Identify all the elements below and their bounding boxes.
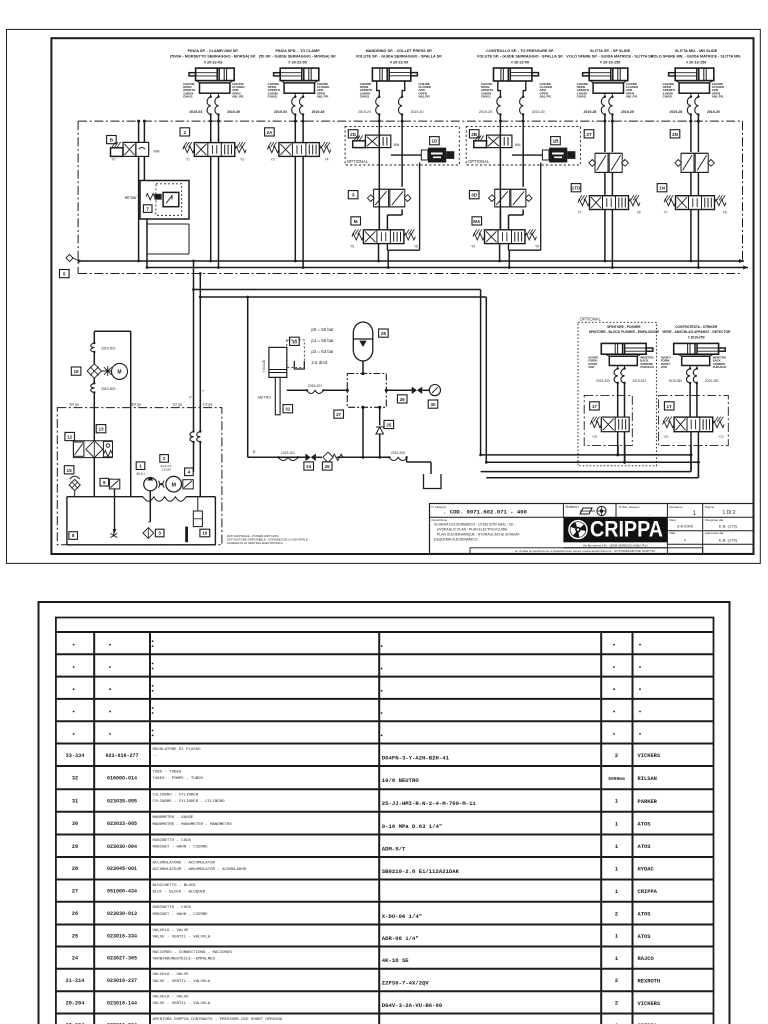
svg-text:1,9 kW: 1,9 kW [161,467,171,471]
svg-text:MA: MA [473,219,481,224]
label box 8 [69,532,78,540]
svg-text:WN: WN [394,143,400,147]
svg-text:023030-004: 023030-004 [107,844,137,850]
relief valve 26b [323,452,343,462]
manifold block 27 [346,372,388,409]
svg-text:M: M [354,219,358,224]
side labels G6 [663,82,725,99]
svg-text:ROBINET - HAHN - CIERRE: ROBINET - HAHN - CIERRE [153,846,209,850]
svg-text:E.B. (173): E.B. (173) [719,537,738,542]
svg-text:# 20-22-00: # 20-22-00 [511,61,529,65]
label box 31 [283,405,293,413]
svg-text:ATOS: ATOS [638,822,652,828]
power unit data note [227,534,310,545]
pump P1 [144,477,157,523]
svg-text:50.5 l: 50.5 l [136,472,144,476]
throttle check pair G4 [489,189,533,207]
wire G8 drops [691,432,698,478]
side labels G2 [268,82,330,99]
label box 7 relief [143,205,152,213]
svg-text:ZURUECK: ZURUECK [713,365,727,369]
cylinder G5 [583,68,628,97]
label box 1D G3 [430,137,440,145]
svg-text:PINZA SPD. - TO CLAMP: PINZA SPD. - TO CLAMP [275,49,320,53]
title block [430,504,754,554]
svg-text:VOLO SFERE MN. - GUIDA MATRICE: VOLO SFERE MN. - GUIDA MATRICE - SLITTA … [651,55,741,59]
svg-text:26: 26 [400,397,406,402]
cylinder G3 [372,68,417,97]
suction strainer [143,522,154,538]
svg-text:VOLO SFERE SP. - GUIDA MATRICE: VOLO SFERE SP. - GUIDA MATRICE - SLITTA … [566,55,654,59]
svg-text:DG4V-3-2A-VU-B6-60: DG4V-3-2A-VU-B6-60 [382,1002,443,1009]
svg-text:2019-28: 2019-28 [670,110,683,114]
svg-text:ABL.PR.: ABL.PR. [232,95,244,99]
relief block lower pipe box [146,219,189,269]
throttle check pair G5 [589,143,629,173]
svg-text:ESQUEMA OLEODINAMICO: ESQUEMA OLEODINAMICO [434,538,478,542]
pilot check black G3 [421,148,454,163]
pressure settings note [311,327,334,365]
svg-text:OPTIONAL: OPTIONAL [580,317,602,322]
wire G3 mid links [379,209,402,229]
svg-text:2N: 2N [672,132,679,137]
svg-text:REGOLATORE DI FLUSSO: REGOLATORE DI FLUSSO [153,748,202,752]
svg-text:ATOS: ATOS [638,844,652,850]
svg-text:PLAN OLEODINAMIQUE - HYDRAULIS: PLAN OLEODINAMIQUE - HYDRAULISCHE SCHEMA [437,533,520,537]
hose 2019-201 b [277,451,299,461]
label box 30 gauge [428,400,438,408]
svg-text:2019-29: 2019-29 [621,110,634,114]
cylinder G4 header labels [477,49,564,64]
svg-text:2019-49: 2019-49 [312,110,325,114]
svg-text:1/2 ga: 1/2 ga [203,402,213,406]
table dotted placeholder rows [73,640,641,736]
svg-text:2019-300: 2019-300 [101,387,115,391]
label box M G4 [472,217,482,225]
optional dashed box G4 [466,127,580,165]
label box 28 [379,329,389,337]
optional dashed box G3 [345,127,459,165]
hose cooler top [91,343,95,352]
svg-text:ABL.PR.: ABL.PR. [626,95,638,99]
svg-text:E' vietata la riproduzione a q: E' vietata la riproduzione a qualsiasi t… [515,549,656,553]
svg-text:BLOCCHETTO - BLOCK: BLOCCHETTO - BLOCK [153,884,197,888]
svg-text:Y7: Y7 [578,211,582,215]
svg-text:CYLINDRE - ZYLINDER - CILINDRO: CYLINDRE - ZYLINDER - CILINDRO [153,800,226,804]
svg-text:1TD: 1TD [572,186,581,191]
label box 5 [60,270,70,278]
wire pump riser P [193,261,195,408]
svg-text:1N: 1N [659,186,666,191]
svg-text:2: 2 [184,130,187,135]
svg-text:2019-20: 2019-20 [358,110,371,114]
CRIPPA logo [563,517,667,548]
wire accumulator feed [247,297,249,457]
svg-text:Sistema I: Sistema I [565,505,578,509]
svg-text:SCHEMA OLEODINAMICO - 14 520 5: SCHEMA OLEODINAMICO - 14 520 575V 60Hz -… [434,523,515,527]
label box 26b [322,462,332,470]
svg-text:p2 = 63 bar: p2 = 63 bar [311,349,334,354]
svg-text:023027-365: 023027-365 [107,956,137,962]
wire G1 P drop [210,156,212,261]
valve V1 G1 4/3 DCV [183,138,247,162]
svg-text:# 20-22-00: # 20-22-00 [390,61,408,65]
svg-text:VERIF - ANSCHLAG APPARAT - DET: VERIF - ANSCHLAG APPARAT - DETECTOR [662,330,731,334]
svg-text:023016-144: 023016-144 [107,1000,137,1006]
label box 1TD G5 [571,184,581,192]
pressure switch cylinder [258,347,287,414]
cylinder G6 header labels [651,49,741,64]
svg-text:3/4 ga: 3/4 ga [131,402,141,406]
wire G6 P drop [690,210,692,261]
label box 10 [200,529,210,537]
cylinder G2 header labels [259,49,336,64]
wire G5 T drop [611,210,613,268]
svg-text:Y20: Y20 [592,435,598,439]
limit switch dashed [287,340,305,369]
hose loops G5 [584,96,634,116]
svg-text:10/8 NEUTRO: 10/8 NEUTRO [382,777,420,784]
svg-text:2B: 2B [471,132,478,137]
svg-text:Y5: Y5 [350,245,354,249]
wire branch B1 [481,471,691,473]
wire valve B T to relief [143,156,145,180]
label box 1N G6 [657,184,667,192]
svg-text:Y1: Y1 [186,157,190,161]
svg-text:5: 5 [63,272,66,277]
svg-text:E.B. (173): E.B. (173) [719,524,738,529]
svg-text:VOLUTE SP. - GUIDE SERRAGGIO -: VOLUTE SP. - GUIDE SERRAGGIO - SPALLA SP… [477,55,564,59]
svg-text:A: A [210,138,212,142]
label box 9 [100,478,109,486]
wire optional link G4 [512,154,543,156]
label box 4 [185,468,194,476]
label box 16 [71,367,81,375]
svg-text:# 20-22-03: # 20-22-03 [204,61,222,65]
svg-text:WN: WN [154,150,160,154]
svg-text:SPINTORE - PUSHER: SPINTORE - PUSHER [607,325,641,329]
svg-text:4: 4 [188,470,191,475]
svg-text:1: 1 [615,934,618,940]
svg-text:MANOMETRE - MANOMETER - MANOME: MANOMETRE - MANOMETER - MANOMETRO [153,823,233,827]
svg-text:PINZA SP. - CLAMP/JAW SP.: PINZA SP. - CLAMP/JAW SP. [188,49,239,53]
wire branch A2 [486,461,698,463]
svg-text:CHIUS.: CHIUS. [360,95,370,99]
label box 2D G3 [348,130,358,138]
label box 1B G4 [551,137,561,145]
svg-text:60 bar: 60 bar [125,195,137,200]
svg-text:VALVE - VENTIL - VALVULA: VALVE - VENTIL - VALVULA [153,980,211,984]
hose 2019-201 a [306,384,325,394]
copyright strip [470,548,703,554]
svg-text:CHIUS.: CHIUS. [577,95,587,99]
svg-text:2019-03: 2019-03 [189,110,202,114]
svg-text:CHIUS.: CHIUS. [268,95,278,99]
svg-text:BLOC - BLOCK - BLOQUED: BLOC - BLOCK - BLOQUED [153,891,206,895]
valve B 4/2 DCV [111,120,160,162]
cylinder G7 [601,343,653,368]
wire riser T inside box [199,408,201,432]
wire G2 lines to valve [294,115,305,143]
svg-text:31: 31 [72,799,78,805]
shutoff valve gauge [412,387,423,394]
svg-text:SLITTA MN. - MN SLIDE: SLITTA MN. - MN SLIDE [675,49,718,53]
label box 2T G5 [584,130,594,138]
svg-text:2019-206: 2019-206 [391,451,405,455]
label box 3 G4 [469,191,479,199]
svg-text:16: 16 [74,369,80,374]
svg-text:ABL.PR.: ABL.PR. [418,95,430,99]
cylinder G2 [274,68,319,97]
svg-text:1B: 1B [553,139,560,144]
svg-text:2019-49: 2019-49 [227,110,240,114]
svg-text:WN: WN [515,143,521,147]
svg-text:1: 1 [615,889,618,895]
svg-text:051000-434: 051000-434 [107,889,137,895]
header labels G7 [589,325,660,334]
svg-text:1: 1 [615,844,618,850]
svg-text:2019-201: 2019-201 [281,451,295,455]
svg-text:SPINTORE - BLOCK PUSHER - EMPU: SPINTORE - BLOCK PUSHER - EMPUJADOR [589,330,660,334]
wire G2 T drop [302,156,304,267]
wire riser P inside box [193,408,195,432]
svg-text:VOR: VOR [588,365,594,369]
label box 2 pump [160,455,169,463]
svg-text:Pagina: Pagina [705,505,715,509]
svg-text:2T: 2T [586,132,592,137]
svg-text:TUBES - POMPE - TUBOS: TUBES - POMPE - TUBOS [153,777,204,781]
label box 1 [136,462,145,470]
wire G4 A/B lines [499,115,525,230]
svg-text:ACCUMULATORE - ACCUMULATOR: ACCUMULATORE - ACCUMULATOR [153,861,216,865]
svg-text:Y2: Y2 [240,157,244,161]
svg-text:27: 27 [72,889,78,895]
wire gauge line [287,389,429,391]
cylinder G4 [494,68,539,97]
svg-text:2019-20: 2019-20 [532,110,545,114]
wire pump return rail [200,296,486,298]
svg-text:--: -- [153,755,158,759]
svg-text:HYDAC: HYDAC [638,867,655,873]
side labels G4 [481,82,553,99]
svg-text:Y5: Y5 [471,245,475,249]
svg-text:Y22: Y22 [718,435,724,439]
svg-text:2: 2 [615,1001,618,1007]
valve G7 [590,383,629,439]
svg-text:2A: 2A [266,130,273,135]
svg-text:28: 28 [72,866,78,872]
svg-text:OPTIONAL: OPTIONAL [468,159,490,164]
label box 3 G3 [348,191,358,199]
side labels G8 [661,356,727,370]
check valve 25 [376,407,384,457]
side labels G7 [588,356,654,370]
svg-text:Y6: Y6 [535,245,539,249]
svg-text:CRIPPA: CRIPPA [590,517,663,542]
wire pump riser T [199,274,201,408]
svg-text:VICKERS: VICKERS [638,753,661,759]
svg-text:2D: 2D [350,132,357,137]
svg-text:023033-005: 023033-005 [107,821,137,827]
hose pump T riser [197,432,201,442]
parts table [56,618,714,1024]
port size labels [69,390,212,407]
wire P bus [79,260,744,262]
tank T1 [67,497,216,545]
svg-text:Y8: Y8 [723,211,727,215]
svg-text:31: 31 [285,407,291,412]
svg-text:17: 17 [592,404,598,409]
svg-text:Data: Data [669,518,676,522]
svg-text:10: 10 [202,531,208,536]
svg-text:2019-201: 2019-201 [308,384,322,388]
svg-text:Via Buonarroti 143 - 20038 SER: Via Buonarroti 143 - 20038 SEREGNO (MB) … [583,543,648,547]
tank symbol TS1 [424,474,442,489]
svg-text:ABL.PR.: ABL.PR. [540,95,552,99]
wire G6 lines to valve [689,115,700,143]
svg-text:p1 = 55 bar: p1 = 55 bar [311,338,334,343]
svg-text:Matr.: Matr. [669,531,676,535]
svg-text:PARKER: PARKER [638,799,658,805]
label box 2 G1 [180,128,190,136]
sheet1 outer border [7,29,761,563]
svg-text:DG4FN-3-Y-A2H-B2H-41: DG4FN-3-Y-A2H-B2H-41 [382,754,450,761]
sheet2 outer border [39,602,730,1024]
air cooler AC1 [87,363,127,379]
cylinder G1 [189,68,234,97]
cylinder G8 [674,343,725,368]
svg-text:2019-29: 2019-29 [707,110,720,114]
svg-text:X-DO-06 1/4": X-DO-06 1/4" [382,913,422,920]
svg-text:Y4: Y4 [325,157,329,161]
wire G1 T drop [218,156,220,267]
label box 2B G4 [469,130,479,138]
svg-text:023035-055: 023035-055 [107,799,137,805]
svg-text:1/2 ga: 1/2 ga [172,402,182,406]
svg-text:2019-20: 2019-20 [411,110,424,114]
coupling [158,481,164,488]
hose loops G2 [274,96,325,116]
svg-text:3: 3 [158,531,161,536]
wire G3 P drop [378,244,380,261]
air breather F2 [69,476,80,496]
svg-text:30: 30 [430,402,436,407]
label box 30 switch [290,337,300,345]
svg-text:RAJCO: RAJCO [638,956,655,962]
wire pilot drop G3 [419,163,421,251]
pressure gauge PG1 [429,385,441,396]
wire pilot drop G4 [540,163,542,251]
svg-text:ADR-06 1/4": ADR-06 1/4" [382,935,419,942]
svg-text:Z2FS6-7-4X/2QV: Z2FS6-7-4X/2QV [382,980,430,987]
hose loops G4 [479,96,545,116]
label box 12 [65,432,75,440]
svg-text:28: 28 [381,331,387,336]
wire G3 A/B lines [378,115,404,230]
svg-text:2019-250: 2019-250 [669,379,683,383]
svg-text:REXROTH: REXROTH [638,978,661,984]
svg-text:ABL.PR.: ABL.PR. [712,95,724,99]
svg-text:ADM-5/T: ADM-5/T [382,845,406,852]
valve optional G4 [474,135,521,148]
svg-text:OPTIONAL: OPTIONAL [347,159,369,164]
svg-text:HYDRAULIC PLAN - PLAN ELECTRO-: HYDRAULIC PLAN - PLAN ELECTRO-FLUIDE [437,528,508,532]
wire G2 P drop [294,156,296,261]
wire G5 lines to valve [603,115,614,143]
svg-text:023016-334: 023016-334 [107,934,137,940]
svg-text:CILINDRO - CYLINDER: CILINDRO - CYLINDER [153,794,199,798]
svg-text:Y6: Y6 [414,245,418,249]
side labels G5 [577,82,639,99]
valve G8 [663,383,725,439]
svg-text:< 014-00: < 014-00 [262,359,266,372]
svg-text:RUBINETTO - COCK: RUBINETTO - COCK [153,906,192,910]
svg-text:26: 26 [72,911,78,917]
wire cooler loop [94,331,130,496]
svg-text:016000-014: 016000-014 [107,776,137,782]
svg-text:Y8: Y8 [637,211,641,215]
svg-text:30: 30 [72,821,78,827]
pilot check black G4 [542,148,575,163]
svg-text:VALVE - VENTIL - VALVULA: VALVE - VENTIL - VALVULA [153,936,211,940]
svg-text:(50 SP. - GUIDE SERRAGGIO - MO: (50 SP. - GUIDE SERRAGGIO - MORSA) SP. [259,55,336,59]
wire valve B P drop [138,156,140,261]
optional dotted box G7 [578,322,656,466]
wire G4 mid links [500,209,523,229]
svg-text:7: 7 [146,206,149,211]
header labels G8 [662,325,731,340]
svg-text:VALVE - VENTIL - VALVULA: VALVE - VENTIL - VALVULA [153,1002,211,1006]
svg-text:2019-203: 2019-203 [633,379,647,383]
svg-text:Descrizione: Descrizione [432,518,448,522]
svg-text:T: T [202,390,204,394]
svg-text:SLITTA SP. - SP SLIDE: SLITTA SP. - SP SLIDE [590,49,631,53]
label box 13 [96,425,106,433]
svg-text:2: 2 [163,456,166,461]
svg-text:# 20-16-150: # 20-16-150 [686,61,706,65]
svg-text:25-JJ-HMI-R-N-2-4-M-700-M-11: 25-JJ-HMI-R-N-2-4-M-700-M-11 [382,800,477,807]
svg-text:# 20-22-05: # 20-22-05 [288,61,306,65]
drain valve [110,530,117,538]
svg-text:p0 = 50 bar: p0 = 50 bar [311,327,334,332]
svg-text:20-204: 20-204 [66,1000,85,1006]
svg-text:TUBO - TUBES: TUBO - TUBES [153,770,182,774]
valve box G8 [659,395,729,445]
label box 2N G6 [670,130,680,138]
svg-text:023016-237: 023016-237 [107,978,137,984]
svg-text:APERTURA DOPPIA CONTRASTO - PR: APERTURA DOPPIA CONTRASTO - PRESSURE-DIE… [153,1018,283,1022]
svg-text:26: 26 [325,464,331,469]
svg-text:ATOS: ATOS [638,934,652,940]
svg-text:CONTROTESTA - STRIKER: CONTROTESTA - STRIKER [675,325,718,329]
svg-text:VALVOLA - VALVE: VALVOLA - VALVE [153,929,190,933]
cylinder G6 [669,68,714,97]
svg-text:3/4 ga: 3/4 ga [69,402,79,406]
svg-text:VOLUTE SP. - GUIDA SERRAGGIO -: VOLUTE SP. - GUIDA SERRAGGIO - SPALLA SP… [356,55,443,59]
svg-text:VICKERS: VICKERS [638,1001,661,1007]
svg-text:2019-300: 2019-300 [101,347,115,351]
valve main G3 4/3 DCV [350,229,418,248]
wire optional link G3 [391,154,422,156]
svg-text:Revisione: Revisione [669,505,683,509]
svg-text:29: 29 [72,844,78,850]
shutoff valve 24 [305,454,316,461]
svg-text:CHIUS.: CHIUS. [183,95,193,99]
svg-text:M: M [117,369,121,375]
svg-text:ROBINET - HAHN - CIERRE: ROBINET - HAHN - CIERRE [153,913,209,917]
side labels G1 [183,82,245,99]
hose cooler bottom [91,383,95,392]
